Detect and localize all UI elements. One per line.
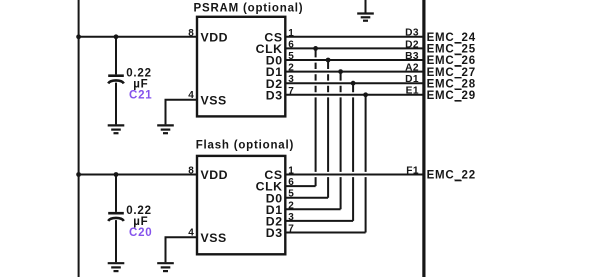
wire EMC bus (thick vertical) (422, 0, 425, 277)
IC Flash body (197, 156, 285, 254)
wire PSRAM D0 to bus (285, 59, 423, 61)
svg-text:B3: B3 (405, 51, 419, 62)
svg-text:EMC_25: EMC_25 (427, 44, 476, 56)
svg-text:VSS: VSS (201, 231, 227, 245)
wire D2 branch vertical (352, 83, 354, 221)
svg-text:E1: E1 (406, 86, 419, 97)
wire underscore strokes of EMC labels (455, 43, 462, 181)
svg-text:EMC_26: EMC_26 (427, 55, 476, 67)
svg-text:D3: D3 (266, 226, 283, 240)
svg-text:6: 6 (288, 39, 294, 50)
wire Flash D3 stub (285, 232, 365, 234)
svg-text:1: 1 (288, 28, 294, 39)
svg-text:C21: C21 (129, 89, 153, 101)
node junction C20 tap (114, 172, 119, 177)
svg-text:A2: A2 (405, 63, 419, 74)
svg-text:8: 8 (188, 28, 194, 39)
node junction D2 branch (351, 81, 356, 86)
wire PSRAM CLK to bus (285, 47, 423, 49)
svg-text:EMC_29: EMC_29 (427, 90, 476, 102)
svg-text:4: 4 (188, 90, 194, 101)
svg-text:D3: D3 (266, 88, 283, 102)
wire PSRAM D2 to bus (285, 82, 423, 84)
svg-text:C20: C20 (129, 227, 153, 239)
svg-text:VDD: VDD (201, 30, 229, 44)
capacitor C21 top plate (108, 74, 124, 77)
wire VDD rail (left vertical) (78, 0, 80, 277)
svg-text:3: 3 (288, 212, 294, 223)
svg-text:F1: F1 (406, 165, 419, 176)
svg-text:3: 3 (288, 74, 294, 85)
svg-text:7: 7 (288, 224, 294, 235)
svg-text:7: 7 (288, 86, 294, 97)
node junction C21 tap (114, 34, 119, 39)
svg-text:5: 5 (288, 189, 294, 200)
wire Flash VDD feed (79, 174, 197, 176)
svg-text:2: 2 (288, 63, 294, 74)
svg-text:EMC_22: EMC_22 (427, 170, 476, 182)
wire C20 lower lead (115, 220, 117, 262)
wire C21 upper lead (115, 37, 117, 75)
svg-text:VSS: VSS (201, 93, 227, 107)
svg-text:D3: D3 (405, 28, 419, 39)
wire C21 lower lead (115, 83, 117, 125)
svg-text:2: 2 (288, 200, 294, 211)
svg-text:EMC_27: EMC_27 (427, 67, 476, 79)
wire PSRAM VDD feed (79, 36, 197, 38)
wire PSRAM D1 to bus (285, 71, 423, 73)
svg-text:6: 6 (288, 177, 294, 188)
svg-text:PSRAM (optional): PSRAM (optional) (194, 2, 304, 14)
wire PSRAM CS to bus (285, 36, 423, 38)
svg-text:EMC_24: EMC_24 (427, 32, 476, 44)
svg-text:VDD: VDD (201, 168, 229, 182)
svg-text:8: 8 (188, 166, 194, 177)
svg-text:Flash (optional): Flash (optional) (196, 140, 294, 152)
ground top center (357, 14, 374, 21)
svg-text:D2: D2 (405, 39, 419, 50)
ground below PSRAM VSS (157, 125, 174, 133)
ground below C21 (108, 125, 125, 133)
wire Flash CLK stub (285, 185, 315, 187)
node junction CLK branch (313, 46, 318, 51)
node junction rail/VDD bottom (76, 172, 81, 177)
svg-text:D1: D1 (405, 74, 419, 85)
capacitor C20 curved plate (108, 218, 124, 221)
node junction D1 branch (338, 69, 343, 74)
ground below C20 (108, 263, 125, 271)
wire Flash D2 stub (285, 220, 353, 222)
wire PSRAM D3 to bus (285, 94, 423, 96)
wire D3 branch vertical (365, 95, 367, 233)
IC PSRAM body (197, 17, 285, 117)
wire Flash D1 stub (285, 208, 340, 210)
node junction rail/VDD top (76, 34, 81, 39)
wire top ground stem (365, 0, 367, 13)
wire Flash D0 stub (285, 197, 328, 199)
wire Flash CS to bus (285, 174, 423, 176)
capacitor C21 curved plate (108, 80, 124, 83)
capacitor C20 top plate (108, 212, 124, 215)
svg-text:5: 5 (288, 51, 294, 62)
wire D0 branch vertical (327, 60, 329, 198)
wire C20 upper lead (115, 175, 117, 212)
wire CLK branch vertical (315, 48, 317, 186)
svg-text:4: 4 (188, 227, 194, 238)
wire Flash VSS stub (166, 237, 198, 262)
node junction D3 branch (363, 92, 368, 97)
wire PSRAM VSS stub (166, 100, 198, 125)
wire D1 branch vertical (340, 72, 342, 210)
svg-text:EMC_28: EMC_28 (427, 78, 476, 90)
node junction D0 branch (326, 58, 331, 63)
ground below Flash VSS (157, 263, 174, 271)
svg-text:1: 1 (288, 166, 294, 177)
